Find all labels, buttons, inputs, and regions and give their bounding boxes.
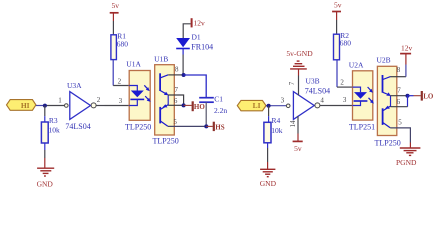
svg-text:U1B: U1B	[154, 55, 168, 64]
svg-text:GND: GND	[260, 179, 277, 188]
svg-text:680: 680	[117, 39, 129, 48]
wire R3 to GND	[44, 143, 46, 150]
port LO	[422, 91, 434, 101]
svg-text:10k: 10k	[271, 126, 283, 135]
inverter U3B 74LS04	[286, 77, 330, 120]
svg-text:4: 4	[320, 96, 324, 104]
power 5v-GND (flipped earth)	[286, 49, 313, 69]
port HS	[214, 122, 225, 132]
capacitor C1 2.2n	[199, 94, 227, 115]
wire junction to R3	[44, 106, 46, 117]
optocoupler U2A (LED side) TLP251	[349, 61, 375, 132]
light arrows U1A	[144, 85, 148, 89]
port HI	[7, 100, 36, 111]
svg-text:6: 6	[397, 98, 401, 106]
resistor R4 10k	[264, 116, 283, 143]
svg-text:R4: R4	[272, 116, 281, 125]
wire C1 to HS node	[205, 102, 207, 126]
junction node pin8	[182, 73, 186, 77]
junction node at HI	[43, 104, 47, 108]
svg-text:U1A: U1A	[126, 60, 141, 69]
pin 7 of U3B to 5v-GND	[288, 69, 298, 96]
svg-text:U3B: U3B	[306, 77, 320, 86]
power 12v (left)	[183, 18, 205, 38]
wire U3B out to U2A pin3	[330, 105, 353, 107]
resistor R2 680	[334, 31, 352, 60]
svg-text:R3: R3	[49, 116, 58, 125]
wire junction to U3A input	[45, 105, 65, 107]
wire pin8 node to C1	[184, 75, 207, 98]
LED inside U2A	[353, 87, 361, 92]
power 5v (below U3B)	[293, 141, 303, 152]
port HO	[193, 101, 206, 111]
svg-text:12v: 12v	[401, 43, 413, 52]
svg-text:74LS04: 74LS04	[65, 122, 90, 131]
svg-text:6: 6	[174, 97, 178, 105]
svg-text:FR104: FR104	[191, 43, 213, 52]
wire R4 to GND	[267, 143, 269, 148]
svg-text:U2A: U2A	[349, 61, 364, 70]
svg-text:3: 3	[119, 97, 123, 105]
resistor R1 680	[111, 31, 128, 59]
svg-text:D1: D1	[192, 32, 201, 41]
junction node HS	[204, 124, 208, 128]
wire R1 to U1A pin2	[112, 60, 114, 86]
upper transistor in U1B	[159, 73, 161, 91]
svg-text:3: 3	[281, 97, 285, 105]
svg-text:8: 8	[175, 66, 179, 74]
svg-text:7: 7	[397, 86, 401, 94]
svg-text:GND: GND	[37, 179, 54, 188]
svg-text:7: 7	[175, 86, 179, 94]
svg-text:3: 3	[343, 96, 347, 104]
svg-text:5v: 5v	[334, 1, 342, 10]
pin 6 stub U2B	[391, 106, 408, 108]
svg-text:TLP250: TLP250	[125, 123, 151, 132]
pin 6 stub U1B	[168, 104, 183, 106]
wire node to HO port	[184, 104, 192, 106]
svg-text:HS: HS	[215, 123, 224, 131]
svg-text:680: 680	[340, 39, 352, 48]
svg-text:5v: 5v	[112, 1, 120, 10]
wire junction to U3B input	[269, 105, 287, 107]
svg-text:2.2n: 2.2n	[214, 106, 227, 115]
pin 14 of U3B to 5v	[289, 116, 298, 141]
svg-text:HI: HI	[21, 101, 30, 110]
svg-text:PGND: PGND	[396, 158, 417, 167]
svg-text:HO: HO	[194, 103, 205, 111]
wire node to HS port	[206, 125, 213, 127]
wire D1 to pin8 node	[182, 49, 184, 55]
optocoupler U2B (output side) TLP250	[375, 56, 401, 148]
svg-text:2: 2	[340, 78, 344, 86]
svg-text:10k: 10k	[49, 126, 61, 135]
wire pin7 node down to pin6	[407, 96, 409, 107]
internal vertical pin7/pin6 link	[390, 96, 392, 107]
svg-text:LI: LI	[253, 101, 261, 110]
svg-text:12v: 12v	[194, 18, 206, 27]
lower transistor in U2B	[382, 108, 384, 125]
lower transistor in U1B	[159, 107, 161, 124]
wire 5v to R2	[336, 20, 338, 34]
svg-text:C1: C1	[214, 94, 223, 103]
junction node at LI	[267, 104, 271, 108]
wire node to LO port	[408, 95, 414, 97]
wire 5v to R1	[112, 21, 114, 35]
svg-text:5: 5	[173, 118, 177, 126]
svg-text:U3A: U3A	[67, 81, 82, 90]
ground PGND	[396, 148, 420, 167]
pin 8 stub U1B	[168, 74, 183, 76]
svg-text:74LS04: 74LS04	[305, 87, 330, 96]
power 5v (left)	[110, 1, 120, 21]
ground GND (left)	[37, 168, 55, 188]
wire junction to R4	[268, 106, 270, 116]
svg-text:7: 7	[288, 81, 296, 85]
ground GND (right)	[260, 169, 277, 188]
svg-text:TLP251: TLP251	[349, 122, 375, 131]
internal vertical pin7/pin6 link	[167, 95, 169, 105]
junction node pin6/7	[182, 103, 186, 107]
svg-text:TLP250: TLP250	[375, 139, 401, 148]
svg-text:LO: LO	[423, 93, 434, 101]
pin 8 stub U2B	[391, 76, 406, 78]
svg-text:U2B: U2B	[377, 56, 391, 65]
junction node pin7 (right)	[406, 94, 410, 98]
svg-text:14: 14	[289, 120, 297, 128]
upper transistor in U2B	[382, 75, 384, 93]
pin 7 stub U2B	[390, 95, 407, 97]
svg-text:5v-GND: 5v-GND	[286, 49, 313, 58]
svg-text:5v: 5v	[294, 144, 302, 153]
pin 5 stub U1B	[168, 125, 207, 127]
pin 5 stub U2B	[390, 128, 410, 143]
wire R2 to U2A pin2	[336, 60, 338, 87]
optocoupler U1A (LED side) TLP250	[125, 60, 151, 132]
optocoupler U1B (output side) TLP250	[153, 55, 179, 146]
port LI	[237, 100, 266, 110]
wire U3A out to U1A pin3	[105, 105, 130, 107]
resistor R3 10k	[41, 116, 60, 143]
inverter U3A 74LS04	[65, 81, 105, 131]
pin 7 stub U1B	[168, 95, 184, 105]
power 12v (right)	[400, 43, 412, 76]
diode D1 FR104	[176, 32, 213, 51]
svg-text:8: 8	[397, 66, 401, 74]
svg-text:2: 2	[97, 96, 101, 104]
LED inside U1A	[129, 86, 137, 91]
svg-text:1: 1	[58, 97, 62, 105]
light arrows U2A	[368, 87, 372, 91]
svg-text:2: 2	[118, 78, 122, 86]
svg-text:5: 5	[398, 118, 402, 126]
wire HI to junction	[36, 105, 45, 107]
wire LI to junction	[266, 105, 269, 107]
svg-text:TLP250: TLP250	[153, 137, 179, 146]
power 5v (right)	[332, 1, 342, 21]
